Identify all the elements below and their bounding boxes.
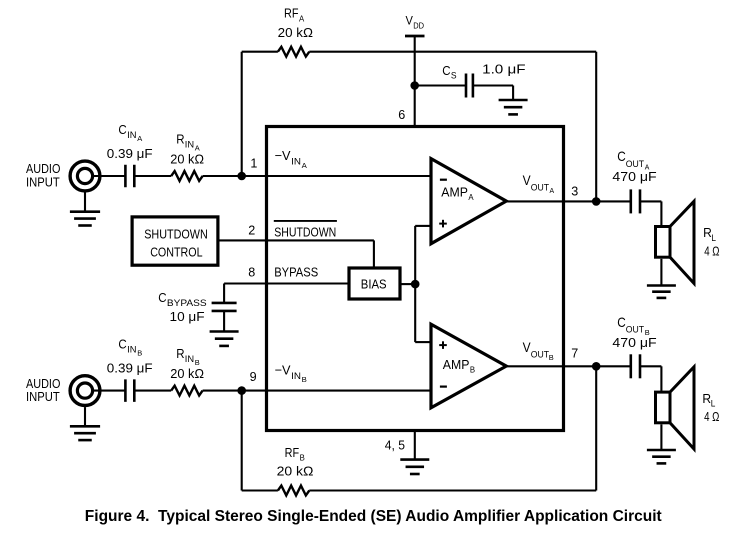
wire BIAS output to amps common [400, 226, 431, 342]
label RF_A [284, 6, 305, 24]
svg-text:A: A [299, 14, 305, 23]
svg-text:CONTROL: CONTROL [150, 245, 202, 260]
label AMP_A [441, 185, 474, 203]
svg-text:BYPASS: BYPASS [167, 298, 207, 308]
op-amp AMP_B [431, 324, 506, 408]
shutdown control box [132, 217, 218, 265]
svg-text:L: L [711, 233, 716, 243]
label 20 kOhm (RIN_A) [170, 151, 204, 166]
svg-text:IN: IN [127, 130, 136, 140]
wire pin 9 to amp B minus input [203, 390, 431, 392]
wire amp A output to pin 3 and node [506, 200, 596, 202]
IC U1 box outline [267, 127, 564, 431]
wire RF_B branch (input node down / across / up to output node) [242, 366, 597, 490]
svg-text:A: A [468, 193, 474, 202]
wire COUT_B to speaker B [640, 366, 661, 391]
label RL (A) [703, 225, 716, 243]
svg-text:BYPASS: BYPASS [274, 265, 318, 280]
label RIN_A [176, 131, 200, 152]
wire C_S to ground [473, 86, 513, 101]
node C_S junction [410, 81, 419, 90]
label CIN_A [118, 122, 142, 143]
svg-text:9: 9 [250, 369, 257, 384]
svg-text:2: 2 [248, 223, 255, 238]
pin 7 label [571, 345, 578, 360]
ground (pins 4,5) [400, 460, 429, 474]
resistor RF_A [278, 47, 309, 57]
ground (jack A) [70, 193, 100, 226]
svg-text:A: A [137, 134, 142, 143]
svg-text:1: 1 [250, 156, 257, 171]
op-amp AMP_A [431, 159, 506, 244]
amp A minus input marker [440, 179, 447, 181]
svg-text:C: C [118, 122, 126, 137]
ground (C_S) [499, 100, 528, 114]
svg-text:B: B [300, 454, 305, 463]
svg-text:L: L [711, 398, 716, 408]
wire jack B to C_INB [93, 390, 125, 392]
capacitor C_S [466, 74, 473, 98]
wire pin 4,5 to ground [414, 431, 416, 460]
resistor RF_B [278, 486, 309, 496]
label 4 Ohm (A) [704, 244, 720, 259]
node input B junction [237, 386, 246, 395]
BIAS box [349, 268, 400, 299]
audio input jack A (RCA connector) [70, 161, 100, 191]
svg-text:V: V [406, 13, 413, 27]
svg-text:4, 5: 4, 5 [385, 437, 405, 452]
svg-text:IN: IN [291, 371, 301, 381]
amp A plus input marker [439, 220, 447, 228]
svg-text:1.0 μF: 1.0 μF [482, 61, 526, 76]
wire speaker A to ground [660, 259, 662, 286]
svg-text:20 kΩ: 20 kΩ [278, 25, 314, 40]
svg-text:AMP: AMP [443, 357, 470, 372]
label C_BYPASS [158, 290, 206, 308]
svg-text:INPUT: INPUT [26, 175, 60, 190]
svg-text:R: R [176, 131, 184, 146]
wire RF_A branch (input node up / across / down to output node) [242, 52, 597, 202]
svg-text:IN: IN [291, 156, 301, 166]
node output A junction [592, 197, 601, 206]
svg-text:B: B [549, 353, 554, 362]
audio input jack B (RCA connector) [70, 376, 100, 406]
node BIAS output junction [411, 280, 420, 289]
capacitor CIN_A [125, 165, 134, 188]
svg-text:0.39 μF: 0.39 μF [107, 360, 153, 375]
pin 2 label [248, 223, 255, 238]
speaker RL A [656, 201, 695, 283]
pin name BYPASS [274, 265, 318, 280]
label 20 kOhm (RF_B) [277, 463, 314, 478]
svg-text:C: C [617, 314, 626, 330]
svg-text:6: 6 [398, 107, 405, 122]
wire pin 8 bypass line [224, 282, 349, 284]
svg-text:8: 8 [248, 264, 255, 279]
svg-text:A: A [550, 186, 555, 195]
label RL (B) [702, 391, 715, 409]
label CIN_B [118, 336, 142, 357]
wire COUT_A to speaker A [640, 201, 661, 225]
label BIAS [361, 277, 387, 292]
node output B junction [592, 362, 601, 371]
label 470 uF (COUT_B) [612, 335, 656, 350]
label AUDIO INPUT (B) [26, 376, 60, 404]
wire amp B output to pin 7 and node [506, 365, 596, 367]
svg-text:0.39 μF: 0.39 μF [107, 146, 153, 161]
svg-text:R: R [176, 346, 184, 361]
svg-text:20 kΩ: 20 kΩ [170, 366, 204, 381]
svg-text:C: C [158, 290, 166, 305]
pin name -VIN_B [275, 363, 307, 385]
label 0.39 uF (CIN_A) [107, 146, 153, 161]
wire node A to COUT_A [596, 200, 631, 202]
wire speaker B to ground [660, 424, 662, 450]
wire C_BYPASS to ground [223, 311, 225, 332]
svg-text:B: B [302, 375, 307, 384]
label C_S [442, 63, 456, 81]
capacitor CIN_B [125, 379, 134, 402]
node input A junction [237, 172, 246, 181]
pin 4, 5 label [385, 437, 405, 452]
capacitor COUT_A [631, 189, 640, 213]
svg-text:−V: −V [275, 363, 291, 378]
svg-text:C: C [118, 336, 126, 351]
resistor RIN_B [171, 386, 202, 396]
svg-text:IN: IN [185, 354, 194, 364]
resistor RIN_A [171, 171, 202, 181]
svg-text:20 kΩ: 20 kΩ [277, 463, 314, 478]
label 20 kOhm (RF_A) [278, 25, 314, 40]
pin 3 label [571, 184, 578, 199]
label 1.0 uF (C_S) [482, 61, 526, 76]
svg-text:C: C [442, 63, 450, 78]
label VOUT_A [523, 172, 555, 195]
label RF_B [285, 445, 305, 463]
wire bypass cap drop [223, 284, 225, 303]
label AUDIO INPUT (A) [26, 161, 60, 189]
label RIN_B [176, 346, 200, 367]
svg-text:10 μF: 10 μF [170, 309, 205, 324]
svg-text:RF: RF [284, 6, 299, 21]
wire C_INA to R_INA [134, 175, 171, 177]
wire C_INB to R_INB [134, 390, 171, 392]
svg-text:OUT: OUT [531, 350, 549, 361]
caption Figure 4 [85, 508, 662, 525]
svg-text:C: C [617, 148, 626, 164]
svg-text:20 kΩ: 20 kΩ [170, 151, 204, 166]
wire R_INA to pin 1 and amp A minus input [203, 175, 431, 177]
amp B minus input marker [440, 386, 447, 388]
svg-text:470 μF: 470 μF [612, 335, 656, 350]
pin 1 label [250, 156, 257, 171]
svg-text:B: B [470, 365, 475, 374]
svg-text:OUT: OUT [626, 325, 644, 336]
svg-text:IN: IN [127, 344, 136, 354]
power VDD terminal [405, 36, 425, 127]
label 0.39 uF (CIN_B) [107, 360, 153, 375]
svg-text:B: B [137, 349, 142, 358]
pin 9 label [250, 369, 257, 384]
pin name SHUTDOWN with overline [274, 221, 337, 239]
svg-text:SHUTDOWN: SHUTDOWN [274, 224, 336, 239]
svg-text:−V: −V [275, 148, 291, 163]
wire VDD node to C_S [415, 84, 466, 86]
pin name -VIN_A [275, 148, 307, 170]
wire jack A to C_INA [93, 175, 125, 177]
svg-text:4 Ω: 4 Ω [704, 244, 720, 259]
svg-text:Figure 4. Typical Stereo Sing: Figure 4. Typical Stereo Single-Ended (S… [85, 508, 662, 525]
label VDD [406, 13, 425, 30]
svg-text:SHUTDOWN: SHUTDOWN [144, 226, 208, 241]
svg-text:3: 3 [571, 184, 578, 199]
svg-text:IN: IN [185, 139, 194, 149]
svg-text:INPUT: INPUT [26, 389, 60, 404]
speaker RL B [656, 367, 695, 449]
svg-text:S: S [451, 71, 457, 81]
ground (jack B) [70, 407, 100, 440]
wire shutdown control to pin 2 and BIAS top [218, 240, 374, 268]
pin 6 label [398, 107, 405, 122]
label COUT_B [617, 314, 650, 337]
label 470 uF (COUT_A) [612, 169, 656, 184]
label SHUTDOWN CONTROL [144, 226, 208, 259]
svg-text:BIAS: BIAS [361, 277, 387, 292]
pin 8 label [248, 264, 255, 279]
amp B plus input marker [439, 341, 447, 349]
svg-text:4 Ω: 4 Ω [704, 409, 720, 424]
capacitor COUT_B [631, 354, 640, 378]
label 4 Ohm (B) [704, 409, 720, 424]
label COUT_A [617, 148, 649, 171]
ground (C_BYPASS) [210, 332, 239, 346]
svg-text:RF: RF [285, 445, 300, 460]
capacitor C_BYPASS [212, 303, 237, 311]
wire node B to COUT_B [596, 365, 631, 367]
ground (speaker B) [647, 450, 676, 463]
label 20 kOhm (RIN_B) [170, 366, 204, 381]
svg-text:AMP: AMP [441, 185, 468, 200]
label AMP_B [443, 357, 475, 375]
svg-text:DD: DD [413, 20, 424, 30]
svg-text:OUT: OUT [531, 183, 549, 194]
svg-text:7: 7 [571, 345, 578, 360]
label 10 uF (C_BYPASS) [170, 309, 205, 324]
svg-text:OUT: OUT [626, 159, 644, 170]
svg-text:A: A [302, 161, 307, 170]
label VOUT_B [523, 339, 554, 362]
ground (speaker A) [647, 286, 676, 298]
svg-text:470 μF: 470 μF [612, 169, 656, 184]
